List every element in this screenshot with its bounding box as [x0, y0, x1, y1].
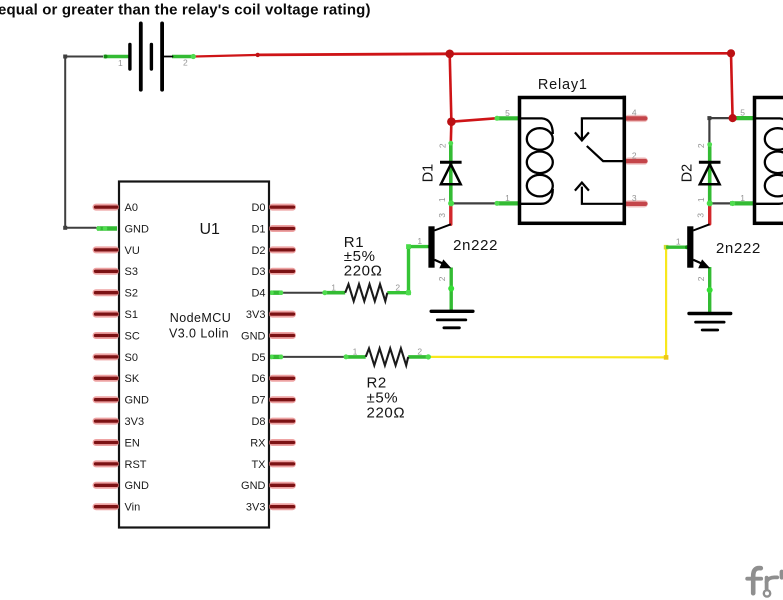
relay Relay1 right edge [623, 96, 627, 225]
IC U1 NodeMCU body [119, 182, 269, 528]
pin 3V3 U1 right [271, 503, 293, 510]
wire battery pin1 lead [104, 55, 130, 59]
svg-text:V3.0 Lolin: V3.0 Lolin [169, 327, 229, 341]
terminal dot [191, 54, 196, 59]
ground GND2 [689, 314, 731, 331]
svg-text:2: 2 [395, 282, 400, 292]
pin 3V3 U1 right [271, 311, 293, 318]
pin SK U1 left [96, 375, 117, 382]
pin 3 Q2 collector [708, 204, 711, 224]
svg-text:D1: D1 [251, 223, 265, 235]
svg-text:5: 5 [740, 108, 745, 118]
pin 2 Q2 emitter lead [708, 267, 711, 314]
diode D1 [440, 162, 462, 184]
svg-text:2: 2 [696, 143, 706, 148]
wire D4 to R1 [282, 292, 324, 294]
pin SC U1 left [96, 332, 117, 339]
wire rail drop to node A [450, 54, 452, 122]
pin 1 R1 lead [323, 291, 345, 295]
pin GND U1 right [271, 332, 293, 339]
svg-text:3V3: 3V3 [125, 416, 145, 428]
pin S2 U1 left [96, 289, 117, 296]
node rail bendpoint [256, 53, 260, 57]
svg-text:1: 1 [437, 197, 447, 202]
pin D3 U1 right [271, 268, 293, 275]
pin D7 U1 right [271, 396, 293, 403]
svg-text:U1: U1 [200, 221, 221, 238]
wire D1 anode to Relay1 pin1 [451, 202, 495, 204]
wire node to D2 cathode [709, 118, 732, 143]
coil Relay1 [520, 118, 553, 203]
svg-text:1: 1 [676, 237, 681, 247]
wire R1 pin2 to Q1 base [387, 247, 429, 293]
svg-text:A0: A0 [125, 202, 138, 214]
svg-text:Vin: Vin [125, 502, 141, 514]
pin EN U1 left [96, 439, 117, 446]
wire battery positive rail segment 2 [258, 54, 450, 55]
svg-text:S2: S2 [125, 288, 138, 300]
diode D2 [699, 162, 721, 184]
node rail junction 1 [445, 50, 454, 59]
relay Relay1 body [520, 98, 625, 224]
switch contacts Relay1 [575, 118, 624, 203]
svg-text:S3: S3 [125, 266, 138, 278]
node rail corner [727, 49, 735, 57]
svg-text:D3: D3 [251, 266, 265, 278]
wire D2 anode to Relay2 pin1 [710, 202, 733, 204]
svg-text:VU: VU [125, 245, 140, 257]
svg-text:1: 1 [118, 58, 123, 68]
svg-text:S0: S0 [125, 352, 138, 364]
fritzing watermark [747, 568, 782, 597]
svg-text:RST: RST [125, 459, 147, 471]
pin 3V3 U1 left [96, 418, 117, 425]
node B junction [729, 114, 737, 122]
pin D2 U1 right [271, 246, 293, 253]
svg-text:3: 3 [437, 213, 447, 218]
svg-text:D0: D0 [251, 202, 265, 214]
svg-text:1: 1 [353, 347, 358, 357]
pin D8 U1 right [271, 418, 293, 425]
pin 5 Relay2 lead [733, 116, 753, 120]
pin GND U1 left [96, 396, 117, 403]
wire node A to Relay1 pin5 [451, 118, 496, 121]
svg-text:220Ω: 220Ω [367, 404, 406, 421]
svg-text:2: 2 [437, 143, 447, 148]
svg-text:D6: D6 [251, 373, 265, 385]
pin RX U1 right [271, 439, 293, 446]
terminal dot [707, 287, 713, 293]
pin GND U1 connected [97, 226, 117, 230]
pin 1 Relay2 lead [730, 201, 753, 205]
transistor Q2 2n222 [687, 224, 710, 268]
pin 2 D1 cathode lead [449, 142, 453, 204]
svg-text:D2: D2 [251, 245, 265, 257]
svg-text:EN: EN [125, 437, 140, 449]
svg-text:D5: D5 [251, 352, 265, 364]
resistor R2 [366, 348, 409, 365]
wire battery pin2 lead [172, 55, 195, 59]
wire bendpoint [664, 355, 669, 360]
svg-text:D4: D4 [251, 288, 265, 300]
pin VU U1 left [96, 246, 117, 253]
svg-text:1: 1 [331, 282, 336, 292]
svg-text:RX: RX [250, 437, 266, 449]
pin 3 Relay1 [626, 200, 645, 207]
pin 2 R1 lead end dot [406, 290, 411, 295]
pin Vin U1 left [96, 503, 117, 510]
svg-text:GND: GND [125, 480, 150, 492]
svg-text:equal or greater than the rela: equal or greater than the relay's coil v… [0, 1, 371, 18]
wire bendpoint [406, 290, 411, 295]
pin TX U1 right [271, 460, 293, 467]
wire battery negative to U1 GND [65, 57, 103, 228]
ground GND1 [431, 311, 473, 328]
svg-text:1: 1 [740, 193, 745, 203]
node A junction [447, 117, 456, 126]
svg-text:3: 3 [632, 193, 637, 203]
svg-text:SC: SC [125, 330, 140, 342]
svg-text:TX: TX [251, 459, 266, 471]
svg-text:3V3: 3V3 [246, 502, 266, 514]
svg-text:1: 1 [696, 197, 706, 202]
svg-text:D2: D2 [679, 164, 695, 183]
svg-text:D7: D7 [251, 395, 265, 407]
terminal dot Q2 base [685, 245, 689, 249]
svg-text:GND: GND [241, 480, 266, 492]
svg-text:D8: D8 [251, 416, 265, 428]
pin 4 Relay1 [626, 115, 645, 122]
transistor Q1 2n222 [428, 224, 451, 268]
svg-text:2n222: 2n222 [453, 238, 498, 255]
wire bendpoint [406, 244, 411, 249]
svg-text:2n222: 2n222 [716, 241, 761, 258]
svg-text:2: 2 [417, 347, 422, 357]
svg-text:Relay1: Relay1 [538, 77, 588, 93]
wire battery positive rail segment 1 [195, 55, 258, 57]
svg-text:1: 1 [417, 236, 422, 246]
node D1 anode junction [448, 200, 454, 206]
svg-text:3: 3 [696, 213, 706, 218]
svg-text:3V3: 3V3 [246, 309, 266, 321]
svg-text:5: 5 [505, 108, 510, 118]
svg-text:GND: GND [125, 223, 150, 235]
pin GND U1 left [96, 482, 117, 489]
value label R2 [367, 375, 406, 422]
svg-text:SK: SK [125, 373, 140, 385]
svg-text:2: 2 [696, 276, 706, 281]
svg-text:2: 2 [437, 276, 447, 281]
wire bendpoint [63, 226, 67, 230]
pin 2 R2 lead [408, 355, 430, 359]
terminal dot [104, 55, 108, 59]
svg-text:220Ω: 220Ω [344, 263, 383, 280]
pin GND U1 right [271, 482, 293, 489]
wire node A to D1 cathode [449, 122, 452, 143]
terminal dot Q1 base [428, 245, 432, 249]
pin S1 U1 left [96, 311, 117, 318]
relay Relay2 body [755, 98, 783, 224]
wire Q2 base lead [666, 245, 688, 248]
svg-text:S1: S1 [125, 309, 138, 321]
wire R2 to Q2 base [430, 247, 667, 357]
wire D5 to R2 [282, 356, 345, 358]
pin A0 U1 left [96, 204, 117, 211]
value label R1 [344, 234, 383, 280]
pin S3 U1 left [96, 268, 117, 275]
pin RST U1 left [96, 460, 117, 467]
svg-text:4: 4 [632, 108, 637, 118]
svg-text:GND: GND [125, 395, 150, 407]
wire rail drop to node B [731, 53, 733, 118]
svg-text:GND: GND [241, 330, 266, 342]
pin 3 Q1 collector [449, 204, 452, 224]
svg-text:2: 2 [183, 58, 188, 68]
pin 5 Relay1 lead [496, 116, 519, 120]
wire bendpoint [63, 55, 67, 59]
pin 1 R2 lead [345, 355, 366, 359]
pin D4 U1 connected [271, 291, 283, 295]
pin D1 U1 right [271, 225, 293, 232]
svg-text:1: 1 [505, 193, 510, 203]
resistor R1 [345, 284, 387, 301]
pin D6 U1 right [271, 375, 293, 382]
pin 2 Q1 emitter lead [450, 268, 453, 312]
svg-text:NodeMCU: NodeMCU [170, 311, 232, 325]
node D2 anode junction [707, 200, 713, 206]
node Q2 base junction [664, 245, 669, 250]
pin 2 D2 cathode lead [708, 143, 712, 203]
battery V1 [130, 23, 173, 89]
svg-text:2: 2 [632, 150, 637, 160]
pin D5 U1 connected [271, 355, 283, 359]
wire battery positive rail segment 3 [450, 52, 731, 55]
svg-text:D1: D1 [420, 164, 436, 183]
coil Relay2 [755, 118, 783, 203]
terminal dot [448, 286, 454, 292]
wire bendpoint [707, 116, 711, 120]
pin D0 U1 right [271, 204, 293, 211]
pin 2 Relay1 [626, 157, 645, 164]
pin S0 U1 left [96, 353, 117, 360]
pin 1 Relay1 lead [496, 201, 519, 205]
